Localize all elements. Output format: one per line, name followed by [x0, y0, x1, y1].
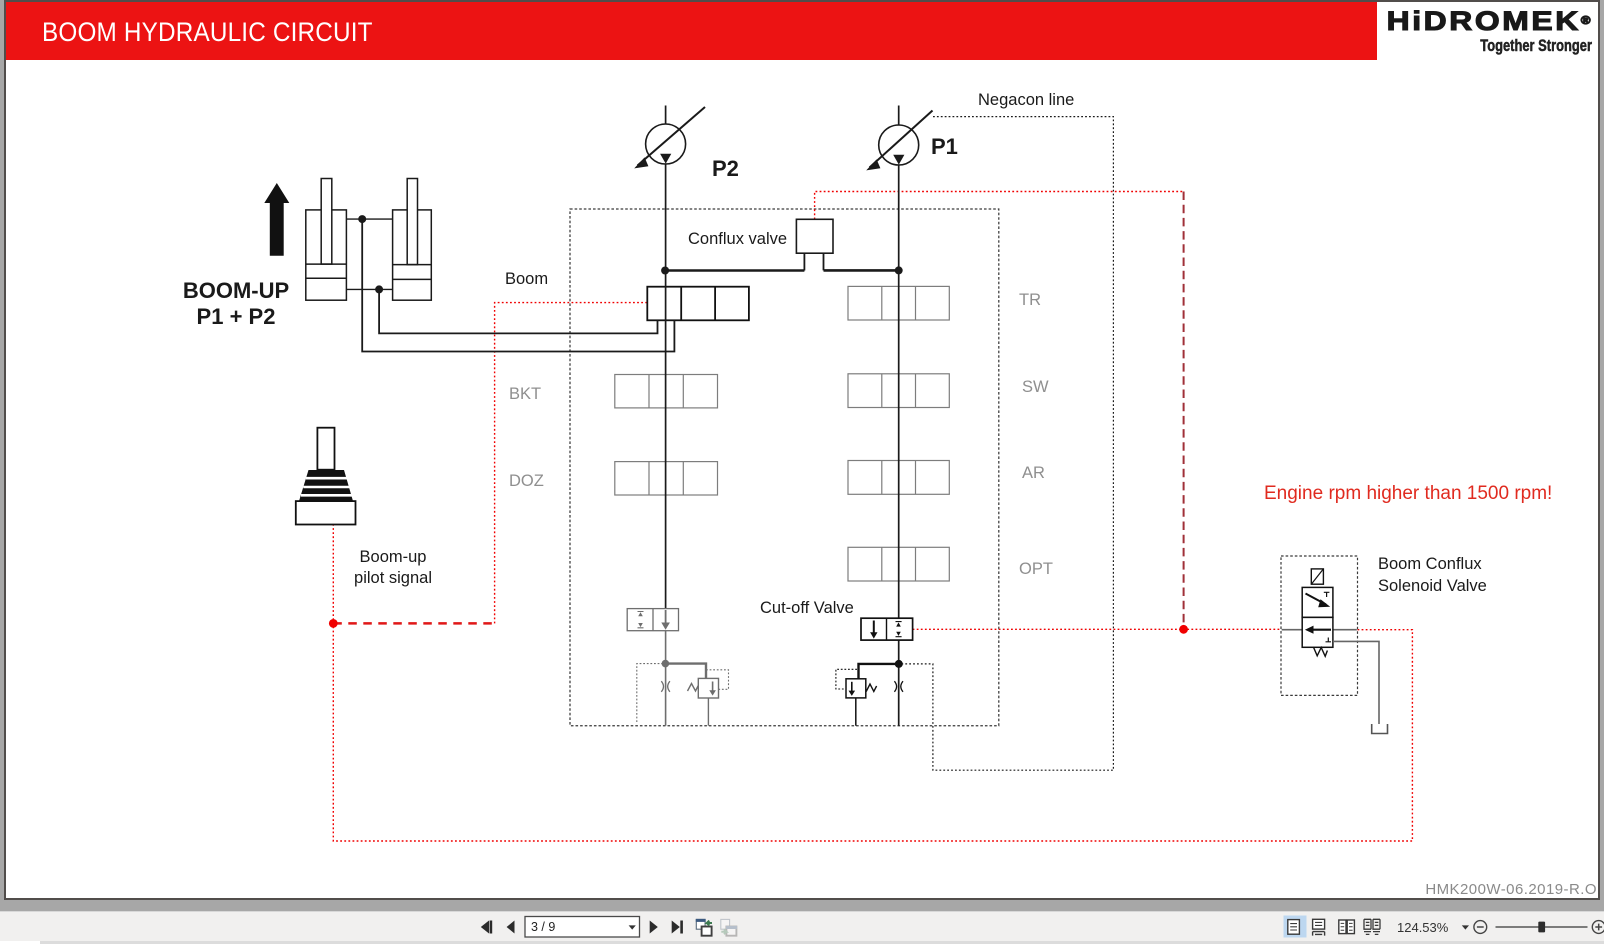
cut-off valve — [861, 618, 913, 640]
AR valve — [848, 461, 949, 495]
solenoid valve dashed enclosure — [1281, 556, 1358, 695]
pump label P2 — [712, 156, 739, 182]
zoom dropdown caret — [1462, 925, 1469, 929]
P1 supply line — [898, 106, 900, 726]
red title banner — [6, 2, 1377, 60]
node P1 lower — [895, 660, 903, 668]
red dotted: cut-off valve to solenoid valve loop — [333, 524, 1412, 841]
P2 supply line — [665, 106, 667, 609]
red dotted to boom valve — [495, 303, 648, 624]
first page icon — [481, 921, 489, 934]
page number field — [525, 917, 640, 938]
node P1-conflux — [895, 266, 903, 274]
two page scrolling icon — [1364, 919, 1380, 934]
P2 relief assembly — [637, 664, 729, 726]
SW valve — [848, 374, 949, 408]
boom cylinder left — [306, 179, 347, 301]
node rod-side — [358, 215, 366, 223]
solenoid tank line — [1333, 641, 1379, 724]
P2 bottom 2-cell valve — [627, 609, 678, 631]
node piston-side — [375, 285, 383, 293]
prev page icon — [507, 921, 515, 934]
pump P1 — [866, 111, 932, 171]
zoom out button — [1474, 921, 1487, 934]
TR valve — [848, 286, 949, 320]
two page view icon — [1339, 920, 1355, 934]
solenoid valve hydraulic line — [1282, 629, 1357, 631]
pump label P1 — [931, 134, 958, 160]
boom cylinder right — [393, 179, 432, 301]
joystick — [296, 428, 356, 525]
node P2 lower — [662, 660, 670, 668]
red dashed boom-up pilot signal — [333, 622, 494, 625]
solenoid valve U1 — [1302, 569, 1333, 656]
tank symbol — [1372, 724, 1388, 734]
BKT valve — [615, 375, 718, 408]
red pilot dotted: conflux valve to dark red drop — [815, 192, 1184, 220]
pump P2 — [634, 107, 705, 168]
node P2-conflux — [661, 267, 669, 275]
red junction dot A — [329, 619, 338, 628]
P1 relief assembly — [836, 664, 903, 726]
boom-up arrow — [264, 183, 289, 256]
zoom in button — [1592, 921, 1604, 934]
HIDROMEK logo — [1353, 6, 1593, 37]
conflux valve — [665, 219, 899, 270]
P2 lower grey line — [665, 609, 667, 726]
valve block dashed boundary — [570, 209, 999, 726]
net label: Negacon line — [978, 91, 1074, 110]
last page icon — [672, 921, 680, 934]
scrolling view icon — [1313, 919, 1325, 935]
boom cylinder wires — [379, 289, 657, 333]
next view icon (disabled) — [721, 919, 737, 935]
zoom slider — [1496, 926, 1588, 928]
toolbar — [0, 911, 1604, 944]
red junction dot B — [1179, 625, 1188, 634]
boom valve — [647, 287, 749, 321]
next page icon — [650, 921, 658, 934]
dark red dashed drop line — [1183, 192, 1185, 630]
single page view icon (active) — [1284, 916, 1307, 938]
previous view icon — [696, 919, 712, 936]
negacon dotted feedback line — [901, 117, 1113, 771]
OPT valve — [848, 547, 949, 581]
DOZ valve — [615, 462, 718, 495]
